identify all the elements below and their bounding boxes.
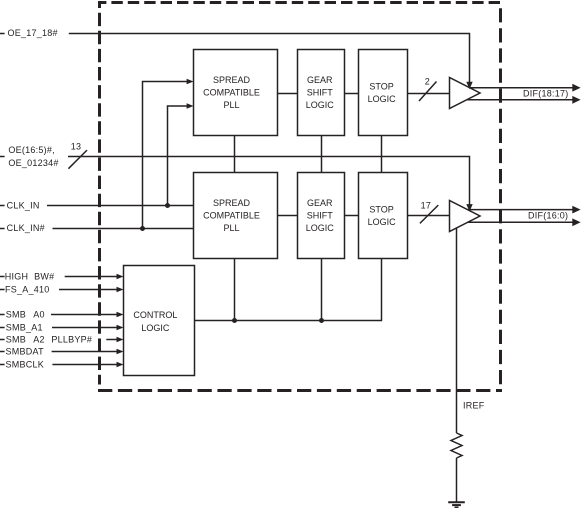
bus-width slash 17	[420, 205, 438, 223]
svg-text:OE(16:5)#,: OE(16:5)#,	[8, 145, 55, 155]
OE arrow into U1	[466, 82, 472, 90]
svg-text:CLK_IN#: CLK_IN#	[7, 223, 45, 233]
wire resistor to ground	[456, 458, 458, 502]
block GEAR2: GEAR SHIFT LOGIC	[298, 173, 345, 259]
svg-text:17: 17	[421, 200, 432, 210]
wire GEAR1 to GEAR2	[321, 136, 323, 173]
chip boundary (dashed)	[98, 1, 502, 392]
wire CLK_IN	[0, 205, 194, 207]
wire PLL2 to GEAR2	[278, 215, 298, 217]
junction dot on CLK_IN	[165, 203, 170, 208]
svg-text:LOGIC: LOGIC	[141, 323, 170, 333]
wire STOP1 to buffer U1	[408, 93, 450, 95]
svg-text:PLL: PLL	[223, 223, 239, 233]
svg-text:COMPATIBLE: COMPATIBLE	[203, 88, 260, 98]
block GEAR1: GEAR SHIFT LOGIC	[298, 50, 345, 136]
svg-text:DIF(18:17): DIF(18:17)	[523, 89, 569, 99]
wire SMBDAT	[0, 349, 124, 354]
svg-text:GEAR: GEAR	[307, 75, 333, 85]
block STOP1: STOP LOGIC	[359, 50, 408, 136]
svg-text:2: 2	[425, 76, 430, 86]
junction dot GEAR2/bus	[319, 318, 324, 323]
svg-text:SPREAD: SPREAD	[213, 198, 251, 208]
wire CLK_IN tap to PLL1 lower input	[168, 103, 194, 205]
wire GEAR1 to STOP1	[345, 93, 359, 95]
svg-text:LOGIC: LOGIC	[368, 94, 397, 104]
svg-text:COMPATIBLE: COMPATIBLE	[203, 211, 260, 221]
svg-text:STOP: STOP	[369, 204, 393, 214]
wire SMBCLK	[0, 362, 124, 367]
svg-text:CLK_IN: CLK_IN	[7, 200, 40, 210]
svg-text:STOP: STOP	[369, 82, 393, 92]
buffer U2 (output driver triangle)	[450, 201, 481, 232]
svg-text:LOGIC: LOGIC	[306, 223, 335, 233]
buffer U1 (output driver triangle)	[450, 78, 481, 109]
wire HIGH BW#	[0, 274, 124, 279]
wire OE_17_18# net	[0, 34, 470, 83]
block PLL2: SPREAD COMPATIBLE PLL	[194, 173, 278, 259]
svg-text:SHIFT: SHIFT	[307, 88, 334, 98]
wire PLL2 to control bus	[234, 259, 236, 321]
svg-text:SMBA0: SMBA0	[6, 310, 45, 320]
wire GEAR2 to control bus	[321, 259, 323, 321]
svg-text:13: 13	[71, 141, 82, 151]
svg-text:SPREAD: SPREAD	[213, 75, 251, 85]
buffer U2 output pair DIF(16:0)	[462, 206, 581, 227]
svg-text:SMBDAT: SMBDAT	[6, 347, 45, 357]
svg-text:OE_01234#: OE_01234#	[8, 158, 58, 168]
wire STOP1 to STOP2	[381, 136, 383, 173]
block CONTROL LOGIC	[124, 266, 195, 376]
junction dot PLL2/bus	[232, 318, 237, 323]
svg-text:IREF: IREF	[463, 400, 485, 410]
buffer U1 output pair DIF(18:17)	[462, 84, 581, 104]
block STOP2: STOP LOGIC	[359, 173, 408, 259]
svg-text:SMBCLK: SMBCLK	[6, 360, 45, 370]
wire OE(16:5)#/OE_01234# net	[0, 157, 470, 205]
svg-text:CONTROL: CONTROL	[133, 310, 177, 320]
svg-text:LOGIC: LOGIC	[306, 100, 335, 110]
svg-text:DIF(16:0): DIF(16:0)	[528, 211, 568, 221]
wire CLK_IN# tap to PLL1 upper input	[143, 79, 194, 229]
svg-text:FS_A_410: FS_A_410	[5, 285, 50, 295]
block PLL1: SPREAD COMPATIBLE PLL	[194, 50, 278, 136]
wire FS_A_410	[0, 287, 124, 292]
resistor R1	[451, 433, 462, 458]
svg-text:SMB_A1: SMB_A1	[6, 323, 43, 333]
svg-text:LOGIC: LOGIC	[368, 217, 397, 227]
bus-width slash 2	[419, 82, 437, 102]
bus-width slash 13	[68, 150, 87, 169]
OE arrow into U2	[466, 204, 472, 212]
wire PLL1 to PLL2	[234, 136, 236, 173]
ground	[448, 502, 465, 507]
wire PLL1 to GEAR1	[278, 93, 298, 95]
node IREF	[457, 228, 485, 434]
wire SMB A2 PLLBYP#	[0, 337, 124, 342]
wire STOP2 to control bus	[195, 259, 382, 321]
wire STOP2 to buffer U2	[408, 215, 450, 217]
junction dot on CLK_IN#	[140, 226, 145, 231]
svg-text:PLL: PLL	[223, 100, 239, 110]
svg-text:SHIFT: SHIFT	[307, 211, 334, 221]
wire SMB_A1	[0, 325, 124, 330]
wire CLK_IN#	[0, 228, 194, 230]
wire GEAR2 to STOP2	[345, 215, 359, 217]
svg-text:GEAR: GEAR	[307, 198, 333, 208]
svg-text:OE_17_18#: OE_17_18#	[8, 28, 58, 38]
wire SMB A0	[0, 312, 124, 317]
